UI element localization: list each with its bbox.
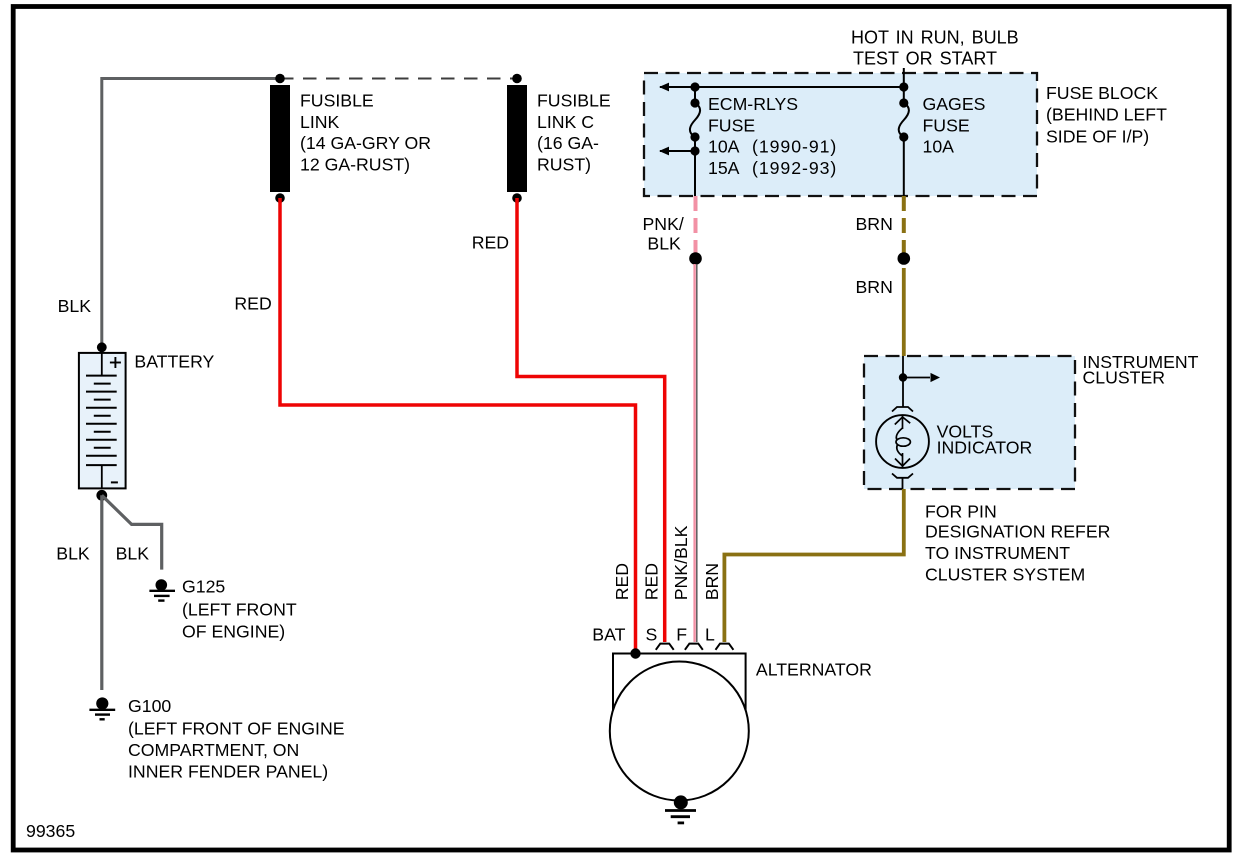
svg-text:BRN: BRN xyxy=(856,214,893,234)
svg-text:SIDE OF I/P): SIDE OF I/P) xyxy=(1046,127,1149,147)
svg-text:BATTERY: BATTERY xyxy=(134,351,214,371)
wire PNK/BLK to alternator F xyxy=(695,264,697,642)
label ECM-RLYS fuse xyxy=(708,94,837,178)
svg-text:PNK/: PNK/ xyxy=(643,214,684,234)
wire bus inside fuse block with arrow xyxy=(659,83,904,92)
node PNK/BLK splice xyxy=(689,252,702,265)
svg-text:(LEFT FRONT OF ENGINE: (LEFT FRONT OF ENGINE xyxy=(128,719,345,739)
terminal S xyxy=(656,644,674,650)
wire BRN to instrument cluster xyxy=(902,268,906,356)
label terminals BAT S F L xyxy=(592,624,715,644)
svg-text:(1990-91): (1990-91) xyxy=(752,137,837,157)
node fusible link C bottom xyxy=(512,193,522,203)
svg-text:BRN: BRN xyxy=(856,277,893,297)
wire BRN cluster to alternator L xyxy=(724,489,903,642)
node battery negative xyxy=(96,490,107,501)
label GAGES fuse xyxy=(923,94,986,157)
alternator body xyxy=(610,654,749,801)
svg-text:BLK: BLK xyxy=(116,543,150,563)
svg-text:TO INSTRUMENT: TO INSTRUMENT xyxy=(925,543,1070,563)
label for pin designation note xyxy=(925,501,1110,584)
wire RED fusible link C to alternator S xyxy=(517,198,665,642)
label fusible link C xyxy=(537,91,611,175)
svg-text:FUSIBLE: FUSIBLE xyxy=(537,91,611,111)
svg-text:(BEHIND LEFT: (BEHIND LEFT xyxy=(1046,105,1167,125)
svg-text:(14 GA-GRY OR: (14 GA-GRY OR xyxy=(300,133,431,153)
battery xyxy=(79,342,126,500)
terminal F xyxy=(685,644,703,650)
node fusible link top xyxy=(275,74,285,84)
svg-text:BLK: BLK xyxy=(58,296,92,316)
svg-text:FOR PIN: FOR PIN xyxy=(925,501,997,521)
svg-text:ECM-RLYS: ECM-RLYS xyxy=(708,94,798,114)
svg-text:FUSE: FUSE xyxy=(708,115,755,135)
svg-text:RED: RED xyxy=(612,563,632,600)
svg-text:12 GA-RUST): 12 GA-RUST) xyxy=(300,154,410,174)
svg-text:15A: 15A xyxy=(708,158,740,178)
wire BLK battery negative to G100 xyxy=(100,495,103,690)
ground alternator case xyxy=(665,795,696,823)
label HOT IN RUN feed xyxy=(851,27,1019,68)
label G125 xyxy=(182,577,297,642)
svg-text:CLUSTER SYSTEM: CLUSTER SYSTEM xyxy=(925,564,1085,584)
label PNK/BLK xyxy=(643,214,684,254)
svg-text:RED: RED xyxy=(641,563,661,600)
terminal L xyxy=(716,644,734,650)
wire inside cluster xyxy=(902,356,904,407)
svg-text:10A: 10A xyxy=(708,137,740,157)
svg-text:F: F xyxy=(676,624,687,644)
node battery positive xyxy=(97,342,107,352)
wire cluster arrow tap xyxy=(903,373,940,382)
svg-text:FUSE: FUSE xyxy=(923,115,970,135)
svg-text:(1992-93): (1992-93) xyxy=(752,158,837,178)
svg-text:99365: 99365 xyxy=(26,821,75,841)
svg-text:RED: RED xyxy=(234,293,271,313)
svg-text:RUST): RUST) xyxy=(537,154,591,174)
fusible link (14 GA-GRY or 12 GA-RUST) xyxy=(270,74,290,203)
wire BLK battery positive to fusible links xyxy=(102,79,280,348)
volts indicator gauge xyxy=(876,407,929,489)
svg-text:(16 GA-: (16 GA- xyxy=(537,133,599,153)
ground G100 xyxy=(89,697,115,719)
fusible link C xyxy=(507,74,527,203)
label fuse block xyxy=(1046,83,1167,147)
svg-text:ALTERNATOR: ALTERNATOR xyxy=(756,660,872,680)
instrument cluster box xyxy=(864,356,1075,489)
node fusible link bottom xyxy=(275,193,285,203)
label fusible link xyxy=(300,91,431,175)
node BAT terminal xyxy=(630,648,640,658)
wire BRN dashed below fuse block xyxy=(902,196,906,253)
svg-text:HOT IN RUN, BULB: HOT IN RUN, BULB xyxy=(851,27,1019,47)
svg-text:BLK: BLK xyxy=(56,543,90,563)
label G100 xyxy=(128,696,345,782)
fuse ECM-RLYS xyxy=(690,82,700,196)
svg-text:GAGES: GAGES xyxy=(923,94,986,114)
wire BLK battery negative to G125 xyxy=(102,495,162,569)
svg-text:LINK: LINK xyxy=(300,112,340,132)
node fusible link C top xyxy=(512,74,522,84)
svg-text:BLK: BLK xyxy=(647,234,681,254)
wire feed into fuse block xyxy=(903,68,905,87)
svg-text:INDICATOR: INDICATOR xyxy=(937,437,1033,457)
svg-text:INNER FENDER PANEL): INNER FENDER PANEL) xyxy=(128,762,328,782)
ground G125 xyxy=(149,579,175,600)
wire RED fusible link to alternator BAT xyxy=(280,198,636,650)
svg-text:FUSE BLOCK: FUSE BLOCK xyxy=(1046,83,1158,103)
svg-text:FUSIBLE: FUSIBLE xyxy=(300,91,374,111)
svg-text:LINK C: LINK C xyxy=(537,112,594,132)
svg-text:G100: G100 xyxy=(128,696,171,716)
label instrument cluster xyxy=(1083,352,1199,388)
svg-text:BRN: BRN xyxy=(702,563,722,600)
node BRN splice xyxy=(898,252,911,265)
svg-text:OF ENGINE): OF ENGINE) xyxy=(182,621,285,641)
svg-text:G125: G125 xyxy=(182,577,225,597)
svg-text:TEST OR START: TEST OR START xyxy=(853,48,997,68)
svg-text:COMPARTMENT, ON: COMPARTMENT, ON xyxy=(128,740,299,760)
label volts indicator xyxy=(937,422,1033,458)
fuse GAGES xyxy=(899,82,909,196)
wire ECM fuse lower arrow xyxy=(659,147,695,156)
svg-text:PNK/BLK: PNK/BLK xyxy=(671,525,691,600)
svg-text:DESIGNATION REFER: DESIGNATION REFER xyxy=(925,521,1110,541)
svg-text:RED: RED xyxy=(472,233,509,253)
svg-text:S: S xyxy=(646,624,658,644)
svg-text:10A: 10A xyxy=(923,137,955,157)
svg-text:CLUSTER: CLUSTER xyxy=(1083,368,1166,388)
svg-text:L: L xyxy=(705,624,715,644)
node cluster junction xyxy=(899,373,907,381)
wire PNK/BLK dashed below fuse block xyxy=(694,196,698,253)
svg-text:BAT: BAT xyxy=(592,624,625,644)
fuse block box xyxy=(644,73,1037,196)
wire dashed jumper between fusible links xyxy=(280,78,517,80)
svg-text:(LEFT FRONT: (LEFT FRONT xyxy=(182,600,297,620)
